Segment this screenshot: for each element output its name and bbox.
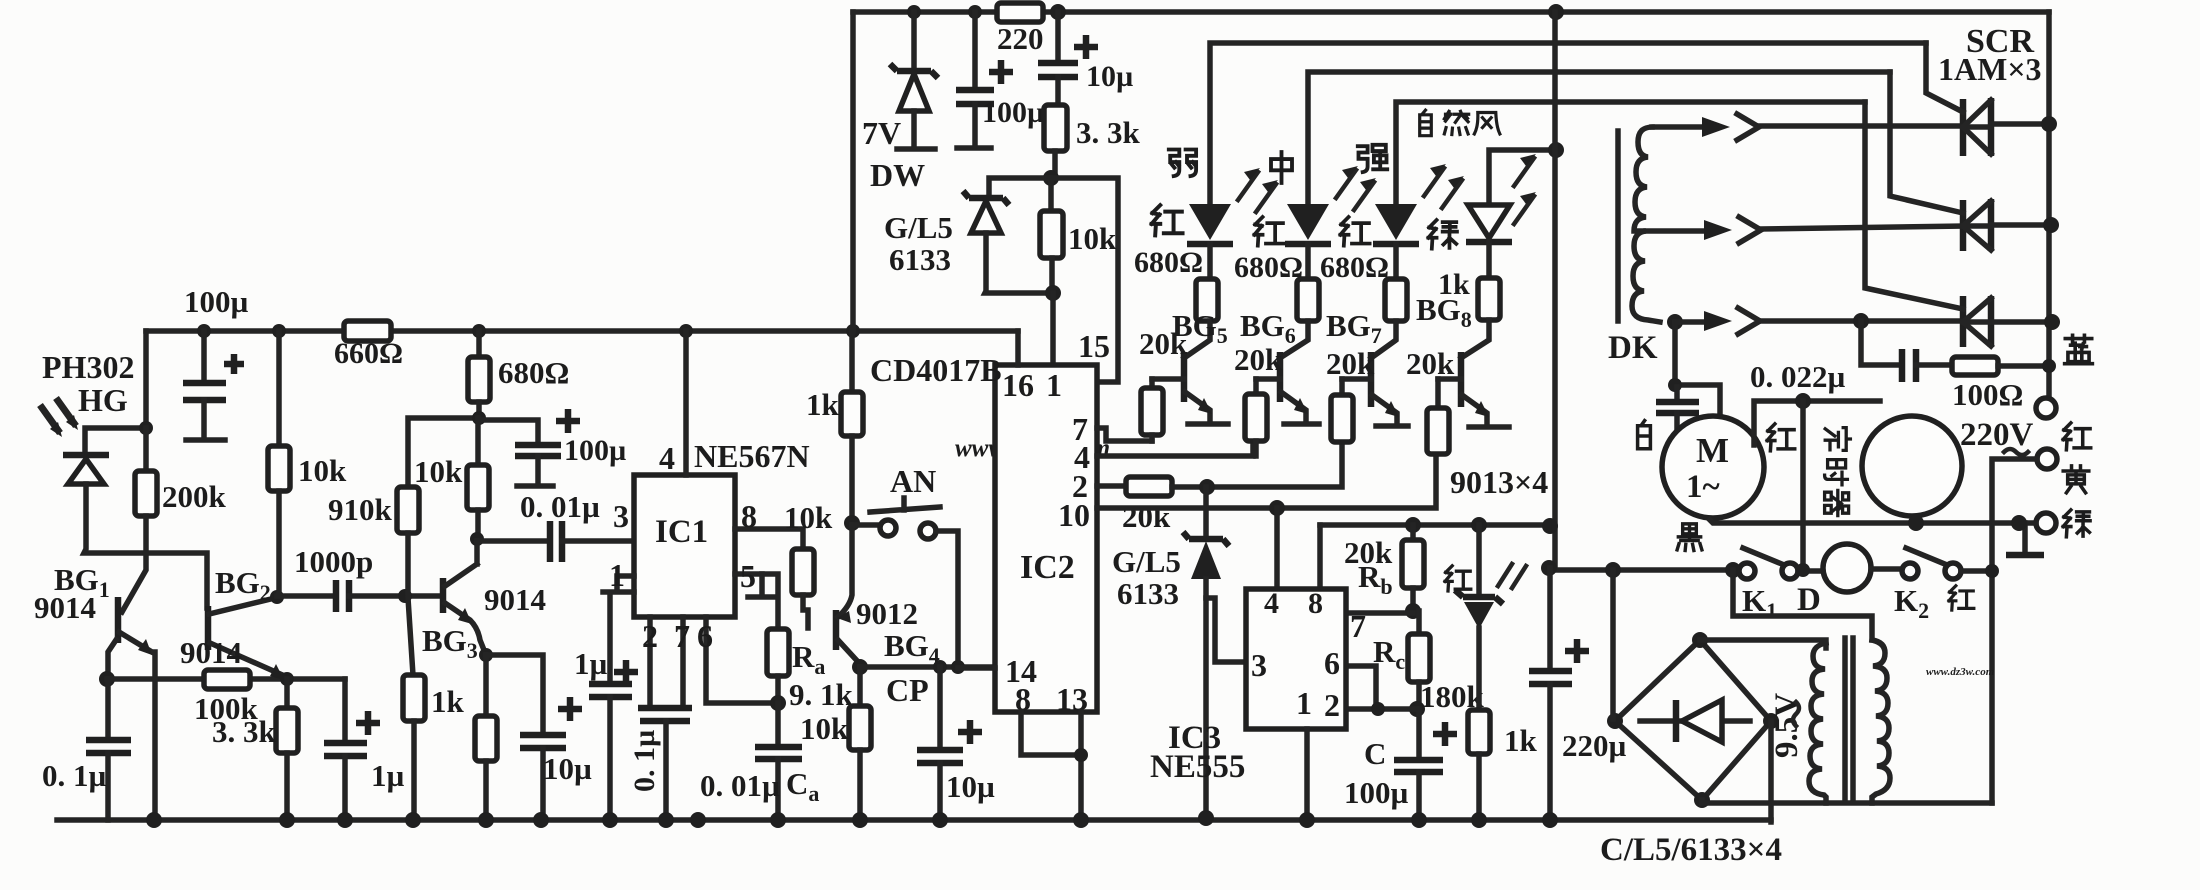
resistor 680R led2 — [1297, 279, 1319, 321]
svg-text:100µ: 100µ — [564, 434, 626, 467]
svg-text:NE555: NE555 — [1150, 749, 1245, 785]
svg-text:IC1: IC1 — [655, 514, 708, 550]
resistor 680R sub — [476, 331, 482, 357]
svg-text:0. 01µ: 0. 01µ — [520, 489, 600, 524]
node dot 100u1 — [197, 324, 211, 338]
capacitor 10u first — [520, 735, 566, 748]
wire reset loop — [1051, 178, 1118, 382]
svg-text:100µ: 100µ — [982, 96, 1044, 129]
svg-text:10µ: 10µ — [1086, 60, 1133, 93]
snubber capacitor 0.022u — [1861, 321, 1900, 365]
capacitor 0.1u second — [638, 708, 692, 721]
resistor 200k — [143, 428, 149, 471]
svg-text:10µ: 10µ — [946, 769, 995, 804]
node dot AN drop — [951, 660, 965, 674]
resistor 10k reset — [1048, 178, 1054, 211]
node dot 910k bottom — [398, 589, 412, 603]
terminal red — [2037, 449, 2057, 469]
svg-text:10k: 10k — [800, 711, 849, 746]
capacitor 1u second — [589, 684, 632, 697]
svg-text:20k: 20k — [1122, 499, 1171, 534]
wire bridge left to switch line — [1610, 570, 1616, 719]
tap 1 arrow — [1652, 124, 1704, 130]
inductor DK winding — [1632, 127, 1660, 322]
resistor 3.3k — [284, 679, 290, 708]
wire +V mid rail — [146, 328, 1018, 334]
transformer core — [1845, 638, 1853, 801]
svg-text:4: 4 — [659, 440, 675, 476]
node dot 680R1 — [472, 324, 486, 338]
svg-text:10: 10 — [1058, 497, 1090, 533]
svg-text:1k: 1k — [431, 684, 465, 719]
resistor 1k BG3 base leg — [408, 598, 413, 675]
node dot pin2 zener — [1199, 479, 1215, 495]
wire CP line — [860, 664, 995, 670]
transistor BG5 — [1181, 352, 1188, 402]
resistor Ra 9.1k — [767, 629, 789, 676]
zener diode G/L5 6133 supply — [963, 191, 1009, 205]
svg-text:10k: 10k — [1068, 221, 1117, 256]
node dot Rb bottom — [1405, 603, 1421, 619]
capacitor motor white — [1674, 387, 1680, 400]
svg-text:910k: 910k — [328, 492, 393, 527]
svg-text:G/L5: G/L5 — [884, 210, 953, 245]
resistor 10k second — [475, 418, 481, 465]
svg-text:220µ: 220µ — [1562, 728, 1627, 763]
wire motor black line — [1710, 520, 2036, 523]
wire ground rail — [57, 817, 1771, 823]
transistor BG6 — [1277, 352, 1284, 402]
transistor BG7 — [1368, 352, 1375, 407]
svg-text:7: 7 — [1350, 608, 1366, 644]
transistor BG8 — [1458, 352, 1465, 407]
zener diode DW 7V — [911, 12, 917, 71]
svg-text:4: 4 — [1264, 587, 1279, 620]
svg-text:20k: 20k — [1139, 326, 1188, 361]
wire BG3 emitter to 10u — [486, 655, 543, 733]
switch K2 — [1902, 563, 1918, 579]
LED D3 red — [1375, 204, 1417, 240]
capacitor Ca 0.01u — [775, 703, 781, 745]
node dot BG1 base / feedback — [99, 671, 115, 687]
capacitor 10u second — [937, 667, 943, 748]
wire LED bus 2 — [1308, 72, 1890, 204]
wire pin7 to Rb — [1346, 610, 1413, 616]
capacitor 100u supply — [972, 12, 978, 88]
wire pin2 line — [1346, 706, 1417, 712]
resistor 660R — [344, 321, 391, 341]
node dot BG3 collector — [470, 532, 484, 546]
svg-text:1: 1 — [1046, 367, 1062, 403]
node dot pin10/IC3 pin4 — [1269, 500, 1285, 516]
svg-text:www.dz3w.com: www.dz3w.com — [1926, 666, 1995, 678]
svg-text:1µ: 1µ — [371, 758, 405, 793]
wire IC2 pin14 CP — [958, 665, 995, 671]
svg-text:220: 220 — [997, 21, 1044, 56]
resistor 680R led3 — [1385, 279, 1407, 321]
resistor 100k — [204, 670, 250, 689]
node dot IC1 pin4 — [679, 324, 693, 338]
wire bridge top to secondary — [1700, 640, 1826, 648]
LED D2 red — [1287, 204, 1329, 240]
wire top +V rail — [853, 9, 2049, 15]
transistor BG4 9012 — [833, 610, 840, 650]
wire K1 to transformer primary — [1733, 570, 1872, 640]
svg-text:D: D — [1797, 582, 1821, 618]
switch K1 — [1739, 563, 1755, 579]
node dot 1k3/top-section — [846, 324, 860, 338]
op-amp IC1 NE567N box — [634, 475, 735, 617]
wire pin6 loop — [1346, 666, 1376, 709]
node dot 680R/910k — [472, 411, 486, 425]
svg-text:680Ω: 680Ω — [1234, 251, 1303, 284]
transformer primary — [1872, 640, 1890, 803]
svg-text:6133: 6133 — [889, 242, 951, 277]
capacitor 100u second — [479, 420, 538, 443]
LED D1 red — [1189, 204, 1231, 240]
node dot Ra/Ca/pin6 — [770, 695, 786, 711]
svg-text:0. 1µ: 0. 1µ — [42, 758, 107, 793]
pin 5 wire — [735, 574, 778, 629]
wire LED bus 3 — [1396, 102, 1865, 204]
motor D — [1823, 544, 1871, 592]
svg-text:10k: 10k — [414, 454, 463, 489]
svg-text:7: 7 — [674, 618, 690, 654]
svg-text:1AM×3: 1AM×3 — [1938, 51, 2042, 87]
svg-text:0. 1µ: 0. 1µ — [628, 730, 661, 792]
node dots on top rail — [907, 5, 921, 19]
svg-text:1: 1 — [609, 557, 625, 593]
wire red phase drop — [1992, 459, 2037, 803]
svg-text:5: 5 — [740, 558, 756, 594]
resistor 1k AN pullup — [849, 331, 855, 392]
terminal green/black — [2036, 513, 2056, 533]
svg-text:9013×4: 9013×4 — [1450, 464, 1548, 500]
resistor 1k led4 — [1478, 278, 1500, 320]
wire DK bottom to motor — [1675, 322, 1720, 420]
resistor 20k bg7 — [1339, 379, 1345, 395]
tap 2 arrow — [1646, 228, 1706, 234]
wire IC2 pin16 — [1015, 331, 1021, 365]
capacitor C 100u first — [201, 331, 207, 381]
svg-text:AN: AN — [890, 463, 936, 499]
svg-text:IC2: IC2 — [1020, 549, 1075, 586]
svg-text:HG: HG — [78, 382, 128, 418]
svg-text:DW: DW — [870, 157, 925, 193]
wire bridge right to ground — [1768, 721, 1774, 822]
ground rail node dots — [146, 812, 162, 828]
IC IC3 NE555 box — [1246, 589, 1346, 729]
svg-text:1000p: 1000p — [294, 544, 373, 579]
svg-text:8: 8 — [741, 498, 757, 534]
svg-text:20k: 20k — [1326, 346, 1375, 381]
wire IC2 pin4 — [1097, 441, 1253, 456]
IC1 bottom pins 2 7 6 — [650, 617, 778, 706]
svg-text:3: 3 — [613, 498, 629, 534]
motor M 1~ — [1662, 416, 1764, 518]
resistor 10k fourth — [857, 667, 863, 706]
LED red indicator — [1476, 525, 1482, 595]
resistor 220 — [997, 3, 1043, 22]
IC IC2 CD4017B box — [995, 365, 1097, 712]
capacitor 1000p — [277, 593, 333, 599]
terminal 220V blue — [2036, 398, 2056, 418]
node dot BG4 collector — [852, 659, 868, 675]
photodiode PH302 HG — [85, 428, 146, 453]
resistor 1k indicator — [1468, 710, 1490, 754]
svg-text:9014: 9014 — [484, 582, 546, 617]
capacitor 10u supply — [1055, 12, 1061, 61]
SCR Q2 — [1963, 199, 1991, 251]
capacitor C 100u timer — [1416, 709, 1422, 758]
svg-text:3. 3k: 3. 3k — [212, 714, 277, 749]
svg-text:DK: DK — [1608, 330, 1658, 366]
node dot BG2 emitter — [280, 672, 294, 686]
wire riser x1555 — [1552, 12, 1558, 568]
svg-text:1µ: 1µ — [574, 646, 608, 681]
pushbutton AN — [852, 522, 879, 528]
svg-text:200k: 200k — [162, 479, 227, 514]
svg-text:6133: 6133 — [1117, 576, 1179, 611]
wire switch line — [1550, 568, 1733, 570]
svg-text:9014: 9014 — [34, 590, 96, 625]
node dot red drop — [1796, 563, 1810, 577]
svg-text:100µ: 100µ — [1344, 775, 1409, 810]
svg-text:20k: 20k — [1234, 342, 1283, 377]
bridge rectifier — [1615, 640, 1771, 800]
wire LED4 top — [1489, 150, 1556, 205]
svg-text:680Ω: 680Ω — [1134, 246, 1203, 279]
wire bottom link — [1702, 800, 1992, 803]
resistor 20k bg5 — [1149, 379, 1155, 388]
node dot 10u2 top — [933, 660, 947, 674]
svg-text:G/L5: G/L5 — [1112, 544, 1181, 579]
capacitor 0.1u first — [105, 679, 111, 738]
svg-text:1~: 1~ — [1686, 469, 1720, 505]
svg-text:9. 1k: 9. 1k — [789, 677, 854, 712]
svg-text:CP: CP — [886, 672, 929, 708]
svg-text:10µ: 10µ — [543, 751, 592, 786]
svg-text:9014: 9014 — [180, 635, 242, 670]
wire IC3 pin8 riser — [1317, 525, 1323, 589]
svg-text:1: 1 — [1296, 685, 1312, 721]
svg-text:20k: 20k — [1406, 346, 1455, 381]
svg-text:8: 8 — [1308, 587, 1323, 620]
wire IC2 pin10 — [1097, 454, 1436, 508]
node dot 10k1 — [272, 324, 286, 338]
label red1 — [1152, 205, 1183, 235]
svg-text:660Ω: 660Ω — [334, 337, 403, 370]
svg-text:100Ω: 100Ω — [1952, 377, 2023, 412]
svg-text:680Ω: 680Ω — [498, 355, 569, 390]
svg-text:220V: 220V — [1960, 417, 2034, 453]
resistor 10k first — [276, 331, 282, 446]
svg-text:2: 2 — [1324, 687, 1340, 723]
label natural wind — [1420, 110, 1432, 136]
timer motor circle — [1862, 416, 1962, 516]
inductor DK core — [1615, 131, 1621, 321]
resistor 680R led1 — [1196, 279, 1218, 321]
svg-text:10k: 10k — [784, 500, 833, 535]
wire to IC2 pin15 — [1050, 293, 1056, 365]
node dot Rc bottom — [1409, 701, 1425, 717]
transistor BG2 9014 — [205, 606, 212, 650]
node dot reset top — [1043, 170, 1059, 186]
label strong — [1358, 145, 1387, 172]
label red2 — [1254, 217, 1283, 246]
svg-text:1k: 1k — [806, 387, 840, 422]
svg-text:6: 6 — [1324, 645, 1340, 681]
transistor BG3 9014 — [440, 578, 447, 613]
ground symbol — [2022, 523, 2028, 553]
node dot BG3 emitter — [479, 648, 493, 662]
capacitor 220u main — [1547, 568, 1553, 669]
svg-text:15: 15 — [1078, 328, 1110, 364]
transistor BG1 9014 — [115, 597, 122, 643]
wire Vcc line 555 — [1320, 522, 1550, 528]
svg-text:7V: 7V — [862, 115, 901, 151]
IR light arrows into PH302 — [40, 398, 76, 433]
wire LED bus 1 — [1210, 43, 1926, 204]
resistor 10k third — [792, 549, 814, 595]
wire feedback line — [107, 676, 345, 682]
wire right vertical rail — [2046, 12, 2052, 399]
svg-text:C/L5/6133×4: C/L5/6133×4 — [1600, 832, 1782, 868]
pin 1 wire — [603, 576, 634, 682]
svg-text:3. 3k: 3. 3k — [1076, 115, 1141, 150]
resistor Rc 180k — [1416, 611, 1422, 634]
capacitor 1u first — [342, 679, 348, 741]
svg-text:2: 2 — [642, 618, 658, 654]
wire IC1 pin4 — [683, 331, 689, 475]
junction rail-left corner — [143, 331, 149, 428]
node dot BG2 collector — [270, 590, 284, 604]
SCR Q3 — [1963, 296, 1991, 347]
label green — [1428, 220, 1457, 249]
label red3 — [1340, 217, 1369, 246]
svg-text:C: C — [1364, 736, 1386, 771]
svg-text:0. 01µ: 0. 01µ — [700, 768, 780, 803]
label weak — [1169, 150, 1196, 177]
label blue — [2065, 335, 2093, 363]
svg-text:9012: 9012 — [856, 596, 918, 631]
wire left riser of supply — [850, 12, 856, 331]
snubber resistor 100R — [1952, 357, 1998, 375]
resistor Rb 20k — [1410, 525, 1416, 540]
wire IC2 pin7 — [1097, 428, 1152, 441]
resistor 910k — [408, 418, 479, 487]
svg-text:1k: 1k — [1504, 723, 1538, 758]
resistor 3.3k supply — [1044, 105, 1067, 151]
svg-text:M: M — [1696, 431, 1729, 470]
wire IC2 pins 8,13 to ground — [1021, 712, 1081, 820]
resistor 20k bg8 — [1435, 379, 1441, 408]
wire red drop to switch line — [1800, 401, 1806, 570]
label mid — [1271, 152, 1292, 183]
resistor emitter leg — [483, 655, 489, 716]
tap 3 arrow — [1667, 314, 1683, 330]
node dot AN junction — [844, 515, 860, 531]
wire motor red lead — [1754, 401, 1880, 445]
svg-text:680Ω: 680Ω — [1320, 251, 1389, 284]
resistor 20k bg6 — [1253, 379, 1259, 394]
SCR Q1 — [1963, 98, 1991, 156]
svg-text:6: 6 — [697, 618, 713, 654]
node dot reset bottom — [1045, 285, 1061, 301]
svg-text:NE567N: NE567N — [694, 438, 810, 474]
node dot snubber tap — [1853, 313, 1869, 329]
svg-text:16: 16 — [1002, 367, 1034, 403]
svg-text:PH302: PH302 — [42, 349, 134, 385]
LED D4 green — [1468, 205, 1510, 238]
wire IC3 pin4 riser — [1274, 508, 1280, 589]
svg-text:100µ: 100µ — [184, 284, 249, 319]
svg-text:3: 3 — [1251, 647, 1267, 683]
svg-text:10k: 10k — [298, 453, 347, 488]
pin 8 wire — [735, 529, 803, 549]
svg-text:CD4017B: CD4017B — [870, 352, 1002, 388]
wire IC2 pin2 + resistor 20k h — [1097, 483, 1126, 489]
svg-text:0. 022µ: 0. 022µ — [1750, 359, 1846, 394]
capacitor 0.01u pin3 — [477, 538, 548, 544]
wire IC3 pin1 — [1304, 729, 1310, 820]
zener diode G/L5 6133 second — [1203, 487, 1209, 537]
svg-text:9.5V: 9.5V — [1769, 693, 1805, 758]
transformer T 9.5V secondary — [1809, 643, 1826, 803]
